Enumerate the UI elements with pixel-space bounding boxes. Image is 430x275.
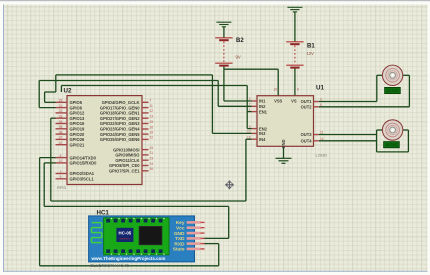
svg-text:15: 15 [247,135,251,139]
svg-text:GPIO17/GPIO_GEN0: GPIO17/GPIO_GEN0 [100,105,140,110]
svg-text:32: 32 [59,109,63,113]
svg-text:OUT4: OUT4 [301,139,313,144]
svg-text:21: 21 [150,151,154,155]
svg-text:B1: B1 [307,44,315,50]
svg-text:GPIO5: GPIO5 [70,100,83,105]
svg-text:3: 3 [320,98,322,102]
svg-text:9V: 9V [236,55,241,60]
svg-text:GPIO26: GPIO26 [70,137,86,142]
svg-text:9: 9 [249,125,251,129]
svg-text:GPIO14/TXD0: GPIO14/TXD0 [70,155,97,160]
svg-text:IN4: IN4 [259,137,266,142]
svg-text:5: 5 [60,175,62,179]
svg-text:wavesen: wavesen [119,237,130,241]
svg-text:15: 15 [150,120,154,124]
svg-text:RXD: RXD [174,241,185,247]
svg-text:EN1: EN1 [259,109,268,114]
svg-text:16: 16 [273,88,277,92]
svg-text:11: 11 [150,104,154,108]
svg-text:U2: U2 [64,88,72,95]
svg-text:ACTIVE: ACTIVE [386,143,398,147]
svg-text:IN2: IN2 [259,104,266,109]
svg-text:GPIO15/RXD0: GPIO15/RXD0 [70,161,98,166]
svg-text:RPI3: RPI3 [57,185,67,190]
svg-text:13: 13 [150,115,154,119]
svg-text:TXD: TXD [175,236,185,242]
svg-text:GPIO25/GPIO_GEN6: GPIO25/GPIO_GEN6 [100,137,140,142]
svg-text:GND: GND [174,231,185,237]
svg-text:GPIO19: GPIO19 [70,127,86,132]
svg-text:GPIO9/MISO: GPIO9/MISO [115,153,140,158]
svg-text:16: 16 [150,125,154,129]
svg-text:10: 10 [59,159,63,163]
svg-text:2: 2 [249,97,251,101]
svg-text:GPIO18/GPIO_GEN1: GPIO18/GPIO_GEN1 [100,111,140,116]
svg-text:22: 22 [150,136,154,140]
svg-text:OUT2: OUT2 [301,105,313,110]
svg-text:1: 1 [249,108,251,112]
svg-text:24: 24 [150,162,154,166]
svg-text:VSS: VSS [274,99,282,104]
svg-text:37: 37 [59,136,63,140]
svg-text:Vcc: Vcc [176,226,185,232]
svg-text:23: 23 [150,157,154,161]
svg-text:12V: 12V [307,51,315,56]
svg-text:VS: VS [291,99,297,104]
svg-text:36: 36 [59,120,63,124]
svg-text:ACTIVE: ACTIVE [387,89,399,93]
svg-text:10: 10 [247,130,251,134]
svg-text:12: 12 [150,109,154,113]
svg-text:IN3: IN3 [259,131,266,136]
svg-text:7: 7 [249,103,251,107]
svg-text:40: 40 [59,141,63,145]
svg-text:BLUETOOTH HC-05: BLUETOOTH HC-05 [91,263,130,268]
svg-text:GPIO20: GPIO20 [70,132,86,137]
svg-text:L293D: L293D [316,153,328,158]
svg-text:GPIO3/SCL1: GPIO3/SCL1 [70,177,95,182]
svg-text:GPIO12: GPIO12 [70,111,86,116]
svg-text:7: 7 [150,99,152,103]
svg-text:GPIO4/GPIO_GCLK: GPIO4/GPIO_GCLK [102,100,140,105]
svg-text:Key: Key [176,220,185,226]
svg-text:29: 29 [59,99,63,103]
svg-text:19: 19 [150,146,154,150]
svg-text:31: 31 [59,104,63,108]
svg-text:State: State [173,247,185,253]
svg-text:GPIO21: GPIO21 [70,142,86,147]
svg-text:GPIO22/GPIO_GEN3: GPIO22/GPIO_GEN3 [100,121,140,126]
svg-text:B2: B2 [236,38,244,44]
svg-text:OUT1: OUT1 [301,99,313,104]
svg-text:IN1: IN1 [259,99,266,104]
svg-text:U1: U1 [316,85,324,92]
svg-text:GPIO11/CLK: GPIO11/CLK [115,158,139,163]
svg-text:GPIO10/MOSI: GPIO10/MOSI [113,147,139,152]
svg-text:GPIO24/GPIO_GEN5: GPIO24/GPIO_GEN5 [100,132,140,137]
svg-text:GPIO6: GPIO6 [70,105,83,110]
svg-text:GPIO8/SPI_CE0: GPIO8/SPI_CE0 [109,163,140,168]
svg-text:8: 8 [297,88,299,92]
svg-text:35: 35 [59,125,63,129]
svg-text:GPIO27/GPIO_GEN2: GPIO27/GPIO_GEN2 [100,116,140,121]
svg-text:33: 33 [59,115,63,119]
svg-text:GPIO2/SDA1: GPIO2/SDA1 [70,171,95,176]
svg-text:14: 14 [320,137,324,141]
svg-text:6: 6 [320,103,322,107]
svg-text:GPIO13: GPIO13 [70,116,86,121]
svg-text:18: 18 [150,130,154,134]
svg-text:GPIO7/SPI_CE1: GPIO7/SPI_CE1 [109,169,140,174]
svg-text:GPIO16: GPIO16 [70,121,86,126]
svg-text:11: 11 [320,131,324,135]
svg-text:26: 26 [150,167,154,171]
svg-text:OUT3: OUT3 [301,132,313,137]
svg-text:www.TheEngineeringProjects.com: www.TheEngineeringProjects.com [91,256,166,261]
svg-text:38: 38 [59,130,63,134]
svg-text:GND: GND [281,139,286,148]
svg-text:8: 8 [60,154,62,158]
svg-text:3: 3 [60,170,62,174]
svg-text:HC-05: HC-05 [119,231,132,236]
